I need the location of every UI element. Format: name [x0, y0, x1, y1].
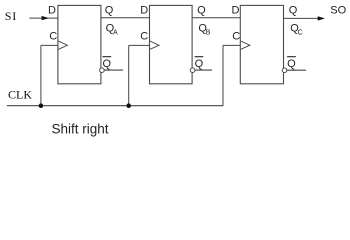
U3 clock edge-trigger triangle — [241, 41, 250, 49]
U1 clock edge-trigger triangle — [58, 41, 67, 49]
svg-text:Shift right: Shift right — [52, 121, 109, 136]
svg-text:C: C — [298, 29, 303, 36]
junction U2 clock tap — [126, 103, 131, 108]
wire Q1 to D2 — [101, 17, 150, 19]
wire U3 Qbar stub — [287, 69, 306, 71]
svg-text:SO: SO — [330, 5, 346, 17]
U3 Qbar inversion bubble — [282, 68, 287, 73]
U3 pin label Qbar — [287, 57, 296, 70]
wire SI input — [29, 16, 58, 20]
U2 Qbar inversion bubble — [190, 68, 195, 73]
wire CLK bus — [7, 105, 223, 107]
node QB label — [198, 23, 210, 37]
svg-text:CLK: CLK — [8, 87, 32, 101]
wire U2 clock drop — [128, 45, 130, 105]
U1 pin label Qbar — [103, 57, 112, 70]
junction U1 clock tap — [39, 103, 44, 108]
wire Q2 to D3 — [192, 17, 240, 19]
svg-text:Q: Q — [289, 5, 298, 17]
flip-flop U3 body — [240, 5, 283, 83]
U2 pin label Qbar — [195, 57, 204, 70]
wire U2 C input — [129, 44, 150, 46]
svg-text:D: D — [232, 5, 240, 17]
U1 Qbar inversion bubble — [100, 68, 105, 73]
wire U3 C input — [223, 44, 240, 46]
wire U1 clock drop — [40, 45, 42, 105]
svg-text:D: D — [48, 5, 56, 17]
wire U1 C input — [41, 44, 58, 46]
flip-flop U1 body — [58, 5, 101, 83]
wire U3 clock riser — [222, 45, 224, 105]
svg-text:Q: Q — [195, 58, 204, 70]
U2 clock edge-trigger triangle — [150, 41, 159, 49]
svg-text:SI: SI — [5, 9, 17, 23]
svg-text:C: C — [49, 31, 57, 43]
wire U2 Qbar stub — [195, 69, 212, 71]
node QC label — [290, 23, 302, 37]
node QA label — [106, 23, 118, 37]
flip-flop U2 body — [150, 5, 193, 83]
svg-text:Q: Q — [103, 58, 112, 70]
svg-text:A: A — [113, 29, 118, 36]
svg-text:D: D — [140, 5, 148, 17]
svg-text:Q: Q — [287, 58, 296, 70]
svg-text:C: C — [232, 31, 240, 43]
svg-text:C: C — [140, 31, 148, 43]
svg-text:B: B — [206, 29, 211, 36]
svg-text:Q: Q — [197, 5, 206, 17]
wire Q3 to SO with arrowhead — [284, 16, 326, 20]
wire U1 Qbar stub — [104, 69, 123, 71]
svg-text:Q: Q — [105, 5, 114, 17]
